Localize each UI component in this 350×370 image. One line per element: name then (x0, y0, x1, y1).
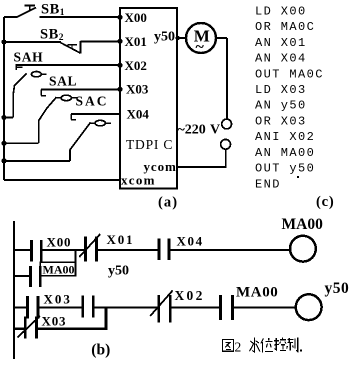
instruction list (c) (255, 4, 324, 191)
wire row1 b (41, 249, 85, 251)
svg-text:TDPI C: TDPI C (126, 137, 173, 152)
coil MA00 (290, 236, 316, 262)
left bus wire (3, 17, 5, 180)
contact unnamed (83, 296, 93, 318)
caption period (300, 350, 302, 352)
terminal circle upper (222, 119, 232, 129)
svg-text:SAC: SAC (76, 94, 109, 109)
wire row2 c (93, 306, 159, 308)
wire SAC return (4, 160, 70, 162)
switch SAH float sensor (15, 66, 17, 70)
svg-text:y50: y50 (154, 30, 175, 45)
contact X03 (28, 296, 39, 319)
contact MA00 branch (31, 266, 41, 287)
wire row1 c (97, 249, 159, 251)
node X00 input (117, 15, 122, 20)
svg-text:LD X00: LD X00 (255, 4, 307, 18)
caption hanzi wei (261, 338, 273, 352)
svg-text:END: END (255, 177, 281, 191)
terminal circle lower (221, 139, 231, 149)
wire SB2 to X01 (81, 40, 121, 42)
svg-text:OR X03: OR X03 (255, 114, 307, 128)
contact X00 (32, 240, 42, 262)
svg-text:AN X04: AN X04 (255, 52, 307, 66)
wire SB2 left (4, 41, 61, 43)
wire row1 d (169, 249, 290, 251)
svg-text:MA00: MA00 (43, 263, 75, 277)
svg-text:SAH: SAH (14, 49, 44, 64)
svg-text:SB2: SB2 (40, 26, 64, 43)
switch SB2 (60, 42, 81, 53)
svg-text:AN X01: AN X01 (255, 36, 307, 50)
node SAC junction (1, 158, 6, 163)
svg-text:X00: X00 (125, 10, 147, 25)
wire SAL return (4, 142, 39, 144)
svg-text:MA00: MA00 (282, 216, 324, 233)
contact X04 (159, 239, 169, 261)
node X02 input (117, 63, 122, 68)
left rail (13, 221, 15, 359)
switch SAC float sensor (70, 114, 72, 120)
wire SAC to X04 (71, 113, 120, 115)
wire xcom run (4, 179, 120, 181)
svg-text:SB1: SB1 (41, 1, 65, 18)
stray mark (297, 176, 299, 178)
wire SB1 to X00 (40, 16, 121, 18)
svg-text:y50: y50 (108, 264, 129, 279)
svg-text:OUT MA0C: OUT MA0C (255, 67, 324, 81)
wire row2 branch left (14, 328, 25, 330)
svg-text:(c): (c) (316, 194, 335, 210)
svg-text:~220: ~220 (178, 122, 206, 137)
svg-text:X03: X03 (42, 314, 67, 329)
svg-text:OR MA0C: OR MA0C (255, 20, 315, 34)
contact MA00 row2 (220, 295, 232, 320)
svg-text:OUT y50: OUT y50 (255, 162, 315, 176)
caption hanzi shui (250, 338, 260, 353)
node X03 input (117, 87, 122, 92)
PLC box U1 (120, 8, 177, 189)
coil y50 (296, 294, 322, 320)
node SAL junction (1, 141, 6, 146)
svg-text:X02: X02 (125, 58, 147, 73)
svg-text:y50: y50 (325, 280, 350, 297)
svg-text:LD X03: LD X03 (255, 83, 307, 97)
box MA00 label frame (40, 262, 75, 276)
wire lower terminal to ycom (177, 149, 226, 167)
node SB2 junction (1, 39, 6, 44)
wire row2 a (14, 306, 28, 308)
svg-text:X04: X04 (127, 106, 150, 121)
wire row1 a (14, 249, 32, 251)
wire right drop (226, 38, 228, 119)
svg-text:SAL: SAL (49, 74, 77, 89)
svg-text:2: 2 (235, 340, 242, 355)
svg-text:AN MA00: AN MA00 (255, 146, 315, 160)
wire merge vertical row2 (105, 307, 108, 330)
wire row2 b (38, 306, 83, 308)
wire row1 branch left (14, 275, 31, 277)
node SAH junction (1, 115, 6, 120)
svg-text:xcom: xcom (121, 172, 156, 187)
caption hanzi kong (274, 338, 286, 351)
svg-text:X02: X02 (175, 288, 205, 303)
svg-text:X00: X00 (47, 234, 72, 249)
wire SAH to X02 (16, 64, 121, 66)
wire motor to drop (216, 37, 227, 39)
wire SB1 left stub (4, 16, 17, 18)
wire row2 d (170, 306, 220, 308)
wire row2 e (233, 306, 296, 308)
svg-text:ANI X02: ANI X02 (255, 130, 315, 144)
contact X01 NC (86, 237, 97, 262)
node X01 input (117, 39, 122, 44)
svg-text:V: V (210, 122, 220, 137)
contact X03 NC branch (25, 317, 36, 339)
wire merge vertical row1 (74, 250, 76, 276)
svg-text:(a): (a) (158, 195, 178, 211)
svg-text:~: ~ (196, 38, 205, 55)
svg-text:MA00: MA00 (236, 284, 278, 300)
motor M (186, 23, 216, 53)
switch SAL float sensor (40, 89, 42, 95)
svg-text:(b): (b) (91, 342, 110, 359)
svg-text:X04: X04 (177, 234, 204, 249)
contact X02 NC (159, 295, 171, 323)
wire y50 to motor (177, 37, 186, 39)
switch SB1 (17, 8, 37, 18)
wire SAH return (4, 117, 13, 119)
wire row2 branch run (37, 327, 108, 330)
node y50 terminal (175, 36, 179, 40)
svg-text:X01: X01 (125, 34, 147, 49)
svg-text:X03: X03 (44, 292, 72, 307)
caption hanzi tu (223, 340, 234, 352)
svg-text:X01: X01 (107, 232, 135, 247)
svg-text:AN y50: AN y50 (255, 99, 307, 113)
wire SAL to X03 (41, 88, 120, 90)
caption hanzi zhi (287, 338, 298, 352)
svg-text:X03: X03 (126, 81, 149, 96)
ladder diagram (b) (14, 221, 322, 359)
